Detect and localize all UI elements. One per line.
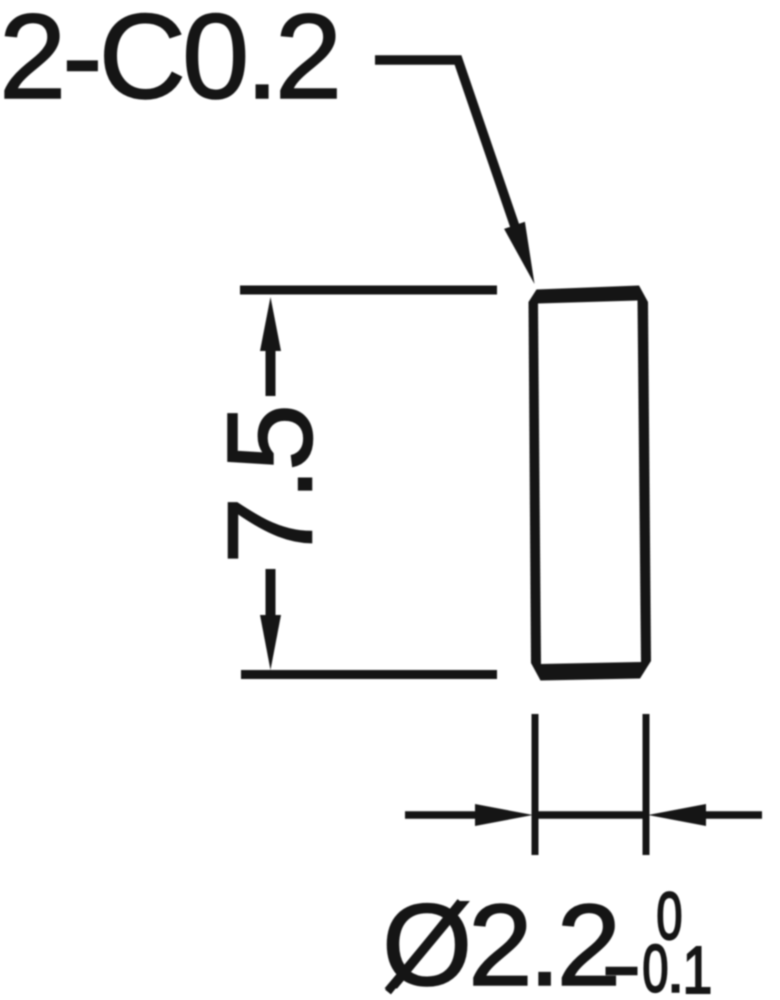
svg-text:7.5: 7.5 [202, 408, 338, 564]
svg-text:0: 0 [642, 932, 668, 1000]
svg-text:1: 1 [683, 932, 713, 1000]
svg-text:2-C0.2: 2-C0.2 [0, 0, 338, 124]
svg-text:Ø2.2: Ø2.2 [382, 880, 617, 1000]
